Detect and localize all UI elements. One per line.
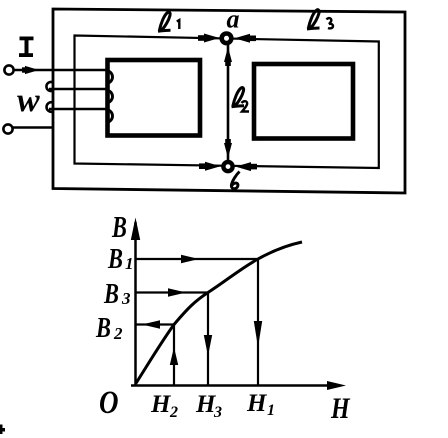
B2 level line [136,323,175,325]
label O origin [99,383,119,420]
label H axis [330,391,350,424]
flux arrow l2 up toward node a [224,47,232,66]
svg-text:B: B [107,244,123,275]
label w [17,82,40,119]
B3 level line [136,291,210,293]
current arrow on wire 1 [22,66,39,74]
label a [227,5,240,34]
svg-text:1: 1 [267,402,275,419]
label I [19,37,34,58]
mean flux path loop [75,36,379,169]
right window [254,64,353,139]
flux arrow l1 into node a [198,34,220,43]
B3 arrow right [168,288,186,296]
svg-text:2: 2 [113,324,123,343]
stray scan mark bottom left [0,425,5,435]
svg-text:H: H [330,391,350,424]
svg-text:B: B [95,313,111,344]
terminal top [4,65,13,74]
H3 arrow down [204,335,212,356]
label B axis [111,209,127,243]
svg-text:B: B [111,209,127,243]
H axis arrowhead [327,381,346,390]
coil loop arc left 2 [47,102,53,112]
svg-text:3: 3 [121,289,131,308]
H2 arrow up [170,347,178,365]
node a [222,34,232,44]
B axis arrowhead [131,218,140,241]
core outer outline [53,9,405,193]
magnetization curve [136,242,302,384]
coil turn wire 3 [49,108,106,111]
flux arrow into node b from left [199,162,221,171]
svg-text:B: B [103,279,119,310]
label B1 [107,244,133,275]
coil turn wire 1 (current input) [14,69,106,72]
svg-text:3: 3 [213,404,222,421]
label H2 [150,391,178,421]
H axis [131,384,340,387]
label l3 [307,10,333,29]
svg-text:w: w [17,82,40,119]
flux arrow l3 into node a [235,34,257,43]
label l2 [232,88,250,112]
coil turn wire 2 [49,88,106,91]
left window [108,60,201,136]
label B2 [95,313,123,344]
svg-text:2: 2 [169,404,178,421]
flux arrow l2 down toward node b [224,139,232,158]
H3 vertical line [207,293,209,386]
svg-text:H: H [246,390,268,417]
coil loop arc left 1 [46,82,53,91]
B1 arrow right [181,255,199,263]
label B3 [103,279,131,310]
coil loop arc right 3 [107,110,113,123]
H1 arrow down [254,321,262,348]
coil loop arc right 1 [107,71,113,84]
flux arrow into node b from right [236,162,258,171]
svg-text:1: 1 [125,254,134,273]
label H3 [195,391,222,421]
H1 vertical line [257,259,259,386]
svg-text:O: O [99,383,119,420]
center limb flux line [227,38,230,167]
svg-text:H: H [150,391,172,418]
B1 level line [136,258,259,260]
label H1 [246,390,275,419]
terminal bottom [3,124,12,133]
H2 vertical line [173,325,175,386]
label b [231,172,239,189]
B axis [134,222,137,386]
B2 arrow left [142,320,160,328]
coil return wire to bottom terminal [13,126,53,129]
coil loop arc right 2 [107,90,113,103]
node b [223,162,232,171]
svg-text:a: a [227,5,240,34]
label l1 [158,12,179,31]
